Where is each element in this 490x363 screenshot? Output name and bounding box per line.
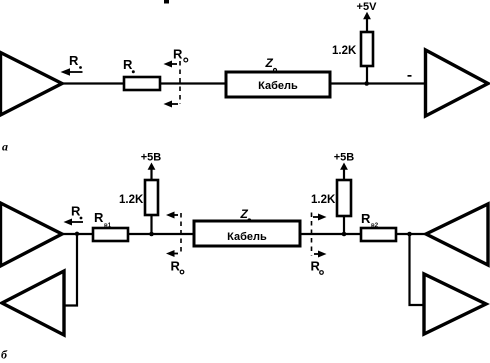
- resistor 1.2K pull-up (b left): [119, 180, 158, 234]
- stray tick top: [164, 0, 169, 4]
- resistor Rv2 (b right): [361, 211, 396, 241]
- buffer U2 (receiver, circuit a right): [426, 50, 489, 116]
- svg-text:Z: Z: [240, 207, 249, 221]
- svg-text:R: R: [69, 53, 79, 68]
- junction node (b right): [342, 232, 347, 237]
- wire: [160, 82, 226, 84]
- svg-text:R: R: [123, 57, 133, 72]
- stray dash above wire: [408, 75, 412, 77]
- junction node (b far right): [407, 232, 412, 237]
- node R0 measurement plane (dashed, b right of cable): [311, 213, 327, 275]
- svg-text:R: R: [361, 211, 371, 226]
- svg-text:+5V: +5V: [357, 1, 378, 13]
- wire: tap down to right receiver: [410, 234, 425, 305]
- wire: [300, 233, 361, 235]
- wire: [128, 233, 194, 235]
- node R0 measurement plane (dashed, circuit a): [164, 47, 188, 108]
- arrow R0 at driver output (a): [61, 53, 83, 76]
- cable Z0 (a): [226, 56, 330, 97]
- svg-text:R: R: [311, 259, 321, 274]
- svg-text:1.2K: 1.2K: [311, 194, 336, 206]
- svg-text:Кабель: Кабель: [227, 231, 267, 243]
- svg-text:R: R: [171, 259, 181, 274]
- svg-text:R: R: [71, 204, 81, 219]
- svg-text:1.2K: 1.2K: [119, 194, 144, 206]
- svg-text:1.2K: 1.2K: [332, 45, 357, 57]
- svg-text:+5B: +5B: [141, 152, 162, 164]
- buffer U6 (driver-right, circuit b right bottom): [424, 274, 486, 334]
- resistor Rv (a): [123, 57, 160, 90]
- buffer U4 (receiver, circuit b left bottom): [2, 271, 64, 335]
- svg-text:R: R: [173, 47, 183, 62]
- buffer U3 (driver, circuit b left top): [1, 203, 63, 266]
- junction node (b left): [149, 232, 154, 237]
- svg-text:Кабель: Кабель: [258, 80, 298, 92]
- svg-text:R: R: [94, 210, 104, 225]
- svg-text:а: а: [2, 140, 8, 154]
- svg-text:+5B: +5B: [334, 152, 355, 164]
- wire: tap down to left receiver: [64, 234, 77, 306]
- resistor Rv1 (b left): [93, 210, 128, 241]
- cable Z0 (b): [194, 207, 300, 246]
- buffer U1 (driver, circuit a left): [1, 53, 63, 116]
- arrow R0 at driver output (b left): [64, 204, 84, 226]
- resistor 1.2K pull-up (b right): [311, 180, 351, 234]
- wire: [62, 82, 124, 84]
- svg-text:Z: Z: [265, 56, 274, 70]
- junction node (a): [364, 81, 369, 86]
- power +5B (b right): [334, 152, 355, 181]
- power +5V (a): [357, 1, 378, 32]
- svg-text:б: б: [1, 348, 8, 362]
- wire: [330, 82, 425, 84]
- power +5B (b left): [141, 152, 162, 181]
- wire: [396, 233, 426, 235]
- svg-text:в2: в2: [371, 223, 379, 229]
- junction node (b left tap): [75, 232, 79, 236]
- svg-text:в1: в1: [104, 223, 112, 229]
- resistor 1.2K pull-up (a): [332, 32, 373, 84]
- node R0 measurement plane (dashed, b left of cable): [166, 212, 184, 274]
- wire: [62, 233, 93, 235]
- buffer U5 (receiver drive-left, circuit b right top): [426, 204, 488, 265]
